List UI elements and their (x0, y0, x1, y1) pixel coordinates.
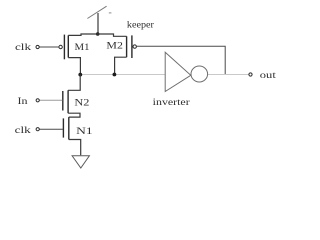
svg-text:clk: clk (15, 43, 31, 53)
svg-text:N1: N1 (76, 127, 93, 137)
svg-text:M2: M2 (106, 42, 123, 52)
svg-text:out: out (260, 71, 276, 81)
svg-text:M1: M1 (75, 43, 90, 53)
svg-text:keeper: keeper (127, 21, 155, 31)
svg-text:inverter: inverter (153, 98, 191, 108)
svg-text:N2: N2 (74, 99, 89, 109)
svg-text:In: In (18, 97, 28, 107)
svg-text:clk: clk (15, 126, 31, 136)
